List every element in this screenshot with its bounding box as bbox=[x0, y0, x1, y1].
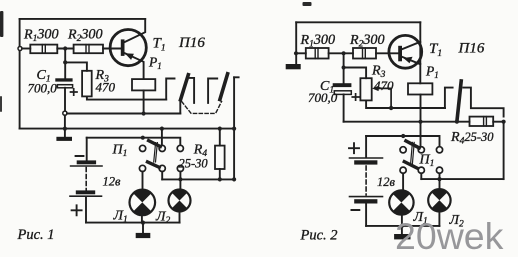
scan artifact left edge top bbox=[0, 11, 3, 37]
node dot R3 jog junction bbox=[63, 60, 67, 64]
node dot blade bottom bbox=[455, 120, 459, 124]
switch П1 bottom-right terminal bbox=[177, 165, 183, 171]
transistor T1 circle bbox=[110, 29, 146, 65]
wire middle bottom stub right bbox=[420, 173, 422, 179]
wire switch middle stub bbox=[161, 129, 163, 146]
wire relay bottom to switch right bbox=[420, 95, 422, 147]
resistor R1 bbox=[30, 45, 57, 54]
wire R2 to base right bbox=[376, 52, 398, 54]
node dot R3 jog right bbox=[342, 65, 346, 69]
node dot rail right end bbox=[232, 177, 236, 181]
wire rail y179 bbox=[162, 178, 234, 180]
transistor T1 right collector line bbox=[402, 42, 420, 50]
svg-text:П1: П1 bbox=[419, 153, 435, 170]
wire R4 top stub bbox=[219, 129, 221, 146]
contact fixed terminal right circuit bbox=[445, 88, 453, 108]
transistor T1 emitter line bbox=[124, 53, 143, 79]
switch П1 right bottom-middle terminal bbox=[418, 167, 424, 173]
switch П1 bottom-left terminal bbox=[139, 165, 145, 171]
node dot bus-switch stub bbox=[160, 127, 164, 131]
wire C1 bottom vertical bbox=[64, 88, 66, 111]
node terminal circle on left frame bbox=[18, 47, 22, 51]
node dot blade pivot right bbox=[401, 134, 405, 138]
node dot at bus crossing bbox=[63, 127, 67, 131]
lamp Л1 right bbox=[389, 190, 413, 214]
relay coil P1 right bbox=[408, 83, 432, 94]
svg-text:Л1: Л1 bbox=[113, 209, 128, 226]
wire C1 top vertical bbox=[64, 49, 66, 79]
node dot rail-ground right bbox=[400, 224, 404, 228]
svg-text:700,0: 700,0 bbox=[28, 81, 58, 96]
capacitor C1 bottom plate right bbox=[334, 91, 351, 95]
node dot bus-R4 bbox=[218, 127, 222, 131]
minus sign battery left bbox=[76, 155, 84, 157]
transistor T1 right emitter arrow bbox=[403, 57, 412, 64]
ground bar bottom left circuit bbox=[136, 233, 151, 238]
battery right cell 2 thick plate bbox=[354, 199, 377, 203]
battery cell 2 thick plate bbox=[76, 190, 95, 194]
wire lamp1 bottom bbox=[141, 214, 143, 222]
contact terminal right arm bbox=[234, 76, 239, 78]
wire rail y222 bbox=[86, 222, 180, 224]
wire right edge vertical bbox=[503, 122, 505, 179]
node dot wiper junction bbox=[389, 106, 393, 110]
node dot R4 right junction bbox=[502, 120, 506, 124]
capacitor C1 top plate bbox=[55, 78, 72, 81]
node dot rail-lamp2 bbox=[178, 177, 182, 181]
wire C1 top vertical right bbox=[343, 53, 345, 83]
node dot left frame base junction bbox=[294, 51, 298, 55]
wire lamp2 top bbox=[179, 172, 181, 190]
ground bar bottom right circuit bbox=[394, 234, 410, 239]
switch П1 right blade upper bbox=[406, 141, 419, 148]
switch П1 right bottom-left terminal bbox=[400, 167, 406, 173]
lamp Л1 bbox=[130, 190, 156, 216]
battery right bottom wire bbox=[365, 204, 367, 226]
wire base frame to R1 right bbox=[296, 52, 306, 54]
switch П1 right bottom-right terminal bbox=[436, 167, 442, 173]
wire middle bottom stub bbox=[161, 172, 163, 180]
node dot relay-bus bbox=[142, 111, 146, 115]
wire R4 right stub bbox=[493, 121, 503, 123]
node circle C1 bottom bbox=[63, 111, 67, 115]
svg-text:470: 470 bbox=[96, 80, 116, 95]
switch П1 bottom-middle terminal bbox=[159, 165, 165, 171]
svg-text:R2300: R2300 bbox=[349, 32, 385, 50]
plus sign battery right bbox=[349, 143, 359, 153]
svg-text:П16: П16 bbox=[178, 35, 205, 51]
wire bus up to contact blade1 bbox=[179, 100, 181, 114]
battery right cell 1 thin plate bbox=[350, 157, 383, 159]
svg-text:Рис. 2: Рис. 2 bbox=[300, 228, 338, 244]
wire bus y113 bbox=[67, 113, 180, 115]
svg-text:R1300: R1300 bbox=[300, 32, 336, 50]
battery dashed middle bbox=[85, 168, 87, 191]
wire left frame right circuit bbox=[295, 22, 297, 64]
node dot relay-bus121 right bbox=[418, 120, 422, 124]
wire lamp1 top bbox=[142, 172, 144, 190]
node dot rail-R4 bbox=[218, 177, 222, 181]
svg-text:П16: П16 bbox=[458, 41, 485, 57]
wire top frame right circuit bbox=[296, 21, 420, 23]
capacitor C1 top plate right bbox=[333, 83, 352, 87]
transistor T1 collector line bbox=[124, 19, 145, 42]
wire R3 bottom bbox=[87, 96, 166, 99]
wire lamp1 top right bbox=[402, 173, 404, 190]
wire jog to R3 top right bbox=[344, 68, 367, 79]
node dot base-C1 junction bbox=[63, 46, 67, 50]
switch П1 top-right terminal bbox=[177, 145, 183, 151]
scan artifact top middle tick bbox=[303, 2, 312, 6]
svg-text:T1: T1 bbox=[429, 41, 442, 59]
svg-text:R1300: R1300 bbox=[23, 27, 59, 45]
battery bottom wire bbox=[85, 197, 87, 223]
transistor T1 base bar bbox=[121, 39, 125, 56]
mechanical link dashed bbox=[182, 101, 222, 113]
wire top frame left circuit bbox=[20, 18, 146, 20]
resistor R4 right bbox=[470, 117, 494, 126]
wire relay bottom bbox=[143, 90, 145, 113]
switch П1 right mechanical link bbox=[411, 142, 415, 163]
wire R3 bottom right bbox=[366, 100, 445, 108]
wire right vertical x234 bbox=[233, 77, 235, 179]
minus sign battery right bbox=[352, 209, 360, 211]
svg-text:12в: 12в bbox=[103, 175, 122, 189]
node dot base-C1 right bbox=[342, 51, 346, 55]
wire bottom bus y128 left circuit bbox=[20, 128, 235, 130]
battery 12v top wire bbox=[86, 138, 88, 161]
resistor R2 right bbox=[353, 48, 376, 59]
wire R1 to R2 bbox=[57, 48, 73, 50]
switch П1 right blade lower bbox=[404, 162, 417, 168]
wire R4 bottom stub bbox=[219, 169, 221, 179]
battery right cell 2 thin plate bbox=[350, 196, 383, 198]
svg-text:R2300: R2300 bbox=[67, 27, 103, 45]
transistor T1 right emitter line bbox=[402, 57, 420, 64]
battery right dashed middle bbox=[365, 166, 367, 195]
plus sign of C1 right bbox=[352, 94, 359, 100]
transistor T1 emitter arrow bbox=[125, 53, 134, 60]
lamp Л2 right bbox=[428, 189, 450, 211]
wire bus y121 right bbox=[344, 121, 470, 123]
transistor T1 right base bar bbox=[398, 46, 402, 62]
wire lamp2 top right bbox=[439, 173, 441, 189]
wire left frame left circuit bbox=[19, 19, 21, 129]
wire C1 bottom vertical right bbox=[343, 94, 345, 121]
battery 12v right top wire bbox=[365, 136, 367, 157]
resistor R2 bbox=[74, 45, 103, 54]
wire node to ground bbox=[64, 115, 66, 137]
wire ground stub bottom bbox=[142, 223, 144, 233]
contact fixed terminal 2 bbox=[190, 78, 194, 103]
resistor R4 bbox=[215, 146, 225, 169]
wire rail y179 right bbox=[421, 178, 503, 180]
contact fixed terminal 1 bbox=[166, 79, 174, 100]
switch П1 right top-middle terminal bbox=[418, 147, 424, 153]
resistor R1 right bbox=[306, 48, 329, 59]
battery cell 1 thick plate bbox=[77, 160, 96, 164]
contact blade 1 bbox=[181, 75, 189, 100]
svg-text:25-30: 25-30 bbox=[179, 157, 209, 171]
node dot rail-ground bbox=[141, 221, 145, 225]
svg-text:T1: T1 bbox=[153, 36, 166, 54]
ground bar top right circuit bbox=[286, 64, 301, 69]
switch П1 right top-left terminal bbox=[400, 147, 406, 153]
lamp Л2 bbox=[169, 190, 191, 212]
transistor T1 right circle bbox=[389, 35, 422, 68]
wire battery feed line bbox=[87, 138, 181, 146]
svg-text:12в: 12в bbox=[377, 175, 396, 189]
wire ground stub bottom right bbox=[401, 226, 403, 234]
switch П1 blade lower bbox=[148, 162, 160, 167]
wire lamp1 bottom right bbox=[401, 215, 403, 226]
contact fixed terminal 3 bbox=[208, 79, 217, 103]
battery cell 2 thin plate bbox=[70, 195, 102, 197]
wire collector-emitter vertical right bbox=[419, 22, 421, 83]
wire lamp2 bottom right bbox=[438, 212, 440, 226]
switch П1 right top-right terminal bbox=[436, 147, 442, 153]
resistor R3 right (potentiometer) bbox=[360, 78, 371, 100]
scan artifact left edge middle bbox=[0, 96, 2, 112]
node dot bus right end bbox=[232, 127, 236, 131]
switch П1 top-middle terminal bbox=[159, 145, 165, 151]
battery cell 1 thin plate bbox=[71, 165, 102, 167]
wire battery feed right bbox=[366, 136, 439, 147]
switch П1 top-left terminal bbox=[140, 145, 146, 151]
svg-text:700,0: 700,0 bbox=[308, 90, 338, 105]
svg-text:R425-30: R425-30 bbox=[450, 130, 494, 147]
switch П1 mechanical link bbox=[154, 143, 158, 162]
contact fixed terminal 2 right circuit bbox=[463, 88, 503, 117]
resistor R3 bbox=[82, 71, 92, 97]
battery right cell 1 thick plate bbox=[354, 160, 377, 164]
relay coil P1 bbox=[132, 79, 155, 90]
svg-text:P1: P1 bbox=[425, 64, 439, 81]
node dot rail-lamp2 right bbox=[437, 177, 441, 181]
svg-text:470: 470 bbox=[374, 78, 394, 93]
wire base line segment frame to R1 bbox=[22, 48, 30, 50]
svg-text:20wek: 20wek bbox=[395, 215, 504, 257]
ground bar upper left bbox=[56, 137, 72, 141]
plus sign of C1 bbox=[71, 89, 78, 95]
wire lamp2 bottom bbox=[179, 211, 181, 222]
svg-text:П1: П1 bbox=[112, 143, 128, 160]
potentiometer wiper arrow bbox=[372, 86, 391, 108]
capacitor C1 bottom plate bbox=[57, 85, 72, 88]
node dot blade pivot feed bbox=[141, 136, 145, 140]
svg-text:Рис. 1: Рис. 1 bbox=[17, 227, 55, 243]
wire jog to R3 top bbox=[65, 62, 87, 70]
wire rail y225 right bbox=[366, 225, 439, 227]
contact blade right circuit bbox=[457, 81, 461, 121]
wire R1 to R2 right bbox=[329, 52, 353, 54]
wire R2 to base bbox=[103, 48, 121, 50]
switch П1 blade upper bbox=[149, 141, 161, 147]
contact blade 2 bbox=[220, 74, 228, 100]
plus sign battery left bbox=[72, 205, 82, 215]
svg-text:Л2: Л2 bbox=[155, 210, 170, 227]
svg-text:P1: P1 bbox=[148, 55, 162, 72]
